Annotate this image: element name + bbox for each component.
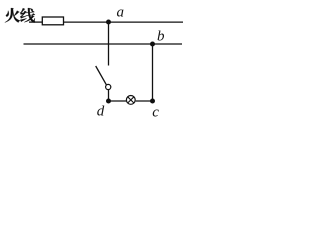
label 火线 (live wire)	[5, 8, 35, 23]
switch S1 blade	[96, 66, 107, 85]
svg-text:a: a	[117, 4, 125, 20]
wire live-right	[64, 21, 184, 23]
wire live-left	[29, 21, 42, 23]
fuse F1	[42, 17, 63, 25]
wire d-to-lamp	[109, 100, 127, 102]
node d	[97, 99, 111, 120]
wire a-down	[108, 22, 110, 66]
node b	[150, 29, 165, 47]
node c	[150, 99, 159, 121]
switch S1 pivot	[106, 84, 111, 89]
wire b-to-c	[152, 44, 154, 101]
wire lamp-to-c	[136, 100, 153, 102]
wire neutral	[24, 43, 183, 45]
svg-text:d: d	[97, 104, 105, 120]
lamp L1	[126, 96, 135, 105]
wire pivot-to-d	[108, 90, 110, 101]
svg-text:c: c	[152, 105, 159, 121]
svg-text:b: b	[157, 29, 165, 45]
node a	[106, 4, 124, 24]
